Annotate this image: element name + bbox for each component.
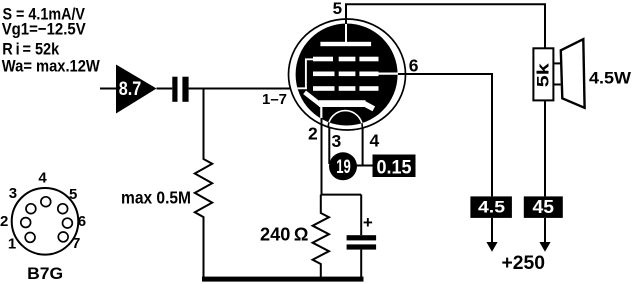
ground rail — [202, 277, 364, 282]
svg-text:B7G: B7G — [27, 264, 63, 283]
grid lead exit to pins 1-7 (white) — [295, 87, 307, 89]
wire capacitor to grid pin 1-7 — [189, 88, 296, 90]
screen voltage badge 4.5 — [470, 196, 512, 218]
wire triangle to coupling capacitor — [157, 88, 173, 90]
pin 4 heater lead — [362, 128, 364, 166]
socket pin hole 4 — [41, 197, 51, 207]
svg-text:4: 4 — [38, 170, 47, 187]
wire transformer to 45 badge — [544, 100, 546, 196]
loudspeaker horn — [561, 39, 585, 108]
grid g2 row — [313, 72, 335, 77]
svg-text:+: + — [363, 213, 373, 232]
grid g1 row — [313, 86, 335, 91]
svg-text:6: 6 — [78, 213, 86, 230]
wire 45 badge to supply arrow — [544, 218, 546, 244]
wire 4.5 badge to supply arrow — [491, 218, 493, 244]
svg-text:max 0.5M: max 0.5M — [121, 188, 191, 208]
wire 19 badge to 0.15 box — [356, 165, 373, 167]
svg-text:8.7: 8.7 — [119, 79, 142, 100]
svg-text:7: 7 — [72, 235, 80, 252]
heater circle (white over blob) — [328, 111, 362, 128]
svg-text:Wa= max.12W: Wa= max.12W — [2, 57, 101, 76]
wire transformer to speaker stub bottom — [553, 84, 560, 86]
pin 2 cathode lead — [321, 118, 323, 196]
socket pin hole 1 — [25, 233, 35, 243]
cathode chevron — [305, 92, 322, 105]
svg-text:4.5W: 4.5W — [589, 69, 632, 88]
svg-text:6: 6 — [409, 56, 419, 76]
pin 3 heater lead — [328, 128, 330, 164]
wire junction to bypass capacitor — [360, 195, 362, 236]
wire transformer to speaker stub top — [553, 62, 560, 64]
anode plate bar — [320, 42, 371, 46]
grid connector top stub (white) — [305, 58, 314, 60]
bypass electrolytic capacitor — [347, 235, 377, 240]
svg-text:4: 4 — [370, 131, 380, 151]
svg-text:0.15: 0.15 — [377, 158, 412, 179]
svg-text:+250: +250 — [502, 253, 546, 274]
cathode resistor 240 ohm — [313, 195, 329, 278]
svg-text:5k: 5k — [533, 63, 552, 88]
grid g2 lead to pin 6 (white) — [377, 72, 399, 74]
cathode lead (white) — [320, 105, 322, 120]
input sensitivity triangle 8.7 — [116, 65, 157, 114]
svg-text:1–7: 1–7 — [262, 91, 287, 108]
pin 5 anode lead — [346, 4, 545, 48]
output transformer 5k — [533, 48, 553, 100]
socket pin hole 7 — [58, 232, 68, 242]
wire input left stub — [100, 88, 116, 90]
socket pin hole 6 — [63, 218, 73, 228]
grid leak resistor max 0.5M — [195, 89, 212, 278]
grid connector vertical line (white) — [305, 59, 307, 89]
coupling capacitor C1 — [172, 77, 177, 102]
svg-text:Vg1=−12.5V: Vg1=−12.5V — [2, 20, 87, 39]
svg-text:19: 19 — [336, 157, 351, 178]
svg-text:2: 2 — [308, 124, 318, 144]
svg-text:4.5: 4.5 — [478, 198, 505, 217]
svg-text:5: 5 — [69, 186, 77, 203]
supply arrow right — [539, 242, 550, 252]
anode current badge 45 — [524, 196, 563, 218]
heater voltage badge 19 — [329, 152, 357, 180]
socket pin hole 2 — [21, 218, 31, 228]
grid g3 row — [313, 57, 333, 62]
svg-text:2: 2 — [0, 213, 8, 230]
socket pin hole 3 — [26, 204, 36, 214]
svg-text:3: 3 — [332, 131, 342, 151]
heater current badge 0.15 — [373, 155, 416, 178]
anode lead (white) — [345, 23, 347, 44]
svg-text:240 Ω: 240 Ω — [260, 224, 309, 245]
svg-text:45: 45 — [533, 197, 555, 217]
socket pin hole 5 — [58, 204, 68, 214]
pin 6 screen lead — [398, 74, 492, 196]
svg-text:1: 1 — [8, 235, 16, 252]
svg-text:5: 5 — [333, 0, 342, 18]
wire capacitor to ground rail — [360, 250, 362, 278]
pentode V1 envelope — [289, 19, 406, 130]
supply arrow left — [486, 242, 497, 252]
pentode electrode assembly (black blob) — [296, 24, 398, 126]
wire cathode junction horizontal — [321, 194, 362, 196]
svg-text:3: 3 — [9, 185, 17, 202]
heater circle (upper arc) — [328, 111, 362, 128]
B7G socket outline — [12, 188, 79, 255]
